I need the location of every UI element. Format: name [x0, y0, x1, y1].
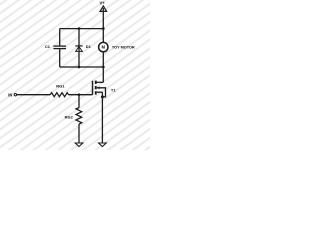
channel segment middle	[95, 86, 97, 89]
svg-text:V+: V+	[100, 0, 106, 5]
wire junction to RG2	[78, 95, 80, 108]
junction dot source/body	[101, 95, 104, 98]
svg-text:M: M	[102, 45, 106, 50]
wire RG1 to gate	[69, 94, 93, 96]
source stub	[97, 91, 103, 93]
background watermark	[0, 0, 150, 150]
junction dot bottom rail at D1	[78, 66, 81, 69]
svg-text:RG2: RG2	[65, 114, 74, 119]
wire RG2 to ground	[78, 124, 80, 143]
body wire	[97, 88, 106, 97]
resistor RG1	[50, 93, 68, 97]
wire D1 top	[78, 29, 80, 46]
power V+ triangle	[100, 6, 107, 11]
wire IN to RG1	[17, 94, 51, 96]
transistor T1	[93, 81, 106, 97]
wire V+ to top rail	[102, 8, 104, 29]
gate bar	[92, 81, 94, 95]
wire motor bottom	[102, 52, 104, 67]
wire top rail	[60, 28, 104, 30]
svg-text:IN: IN	[8, 92, 12, 97]
terminal IN	[14, 94, 16, 96]
junction dot bottom rail at drain	[102, 66, 105, 69]
label RG2	[65, 114, 74, 119]
wire drain vertical	[102, 67, 104, 82]
channel segment top	[95, 81, 97, 84]
motor M1 circle	[99, 42, 108, 51]
wire source to ground	[101, 92, 103, 143]
motor M letter	[102, 45, 106, 50]
power V+ label	[100, 0, 106, 5]
wire motor top	[102, 29, 104, 43]
junction dot top rail at V+	[102, 27, 105, 30]
junction dot gate row	[78, 93, 81, 96]
ground under RG2	[75, 143, 83, 147]
label C1	[45, 44, 51, 49]
svg-text:D1: D1	[86, 44, 92, 49]
svg-text:TOY MOTOR: TOY MOTOR	[112, 46, 135, 50]
ground under T1	[99, 143, 107, 147]
label TOY MOTOR	[112, 46, 135, 50]
wire D1 bottom	[78, 47, 80, 68]
channel segment bottom	[95, 91, 97, 94]
svg-text:C1: C1	[45, 44, 51, 49]
label D1	[86, 44, 92, 49]
svg-text:T1: T1	[111, 88, 116, 93]
label RG1	[56, 84, 65, 89]
label T1	[111, 88, 116, 93]
capacitor C1	[53, 46, 66, 49]
label IN	[8, 92, 12, 97]
wire C1 top	[59, 29, 61, 46]
resistor RG2	[76, 108, 82, 124]
body arrow	[97, 86, 100, 89]
wire drain jog to channel	[96, 81, 103, 83]
wire C1 bottom	[59, 49, 61, 67]
diode D1	[75, 46, 82, 52]
junction dot top rail at D1	[78, 27, 81, 30]
wire bottom rail	[60, 66, 104, 68]
svg-text:RG1: RG1	[56, 84, 65, 89]
